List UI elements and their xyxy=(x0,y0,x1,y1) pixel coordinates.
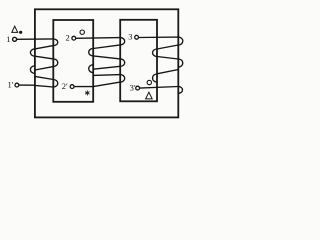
svg-text:1: 1 xyxy=(6,34,10,44)
marker circle at terminal 2 xyxy=(80,30,84,34)
marker circle at terminal 3' xyxy=(147,80,151,84)
winding L2 (coil on center core leg, terminals 2-2') xyxy=(89,38,125,87)
core outer rectangle xyxy=(35,9,178,117)
svg-text:3: 3 xyxy=(128,32,132,42)
winding L3 (coil on right core leg, terminals 3-3') xyxy=(153,37,183,82)
core window 1 xyxy=(53,20,93,102)
marker triangle at terminal 3' xyxy=(146,92,153,99)
marker asterisk at terminal 2' xyxy=(85,91,89,95)
svg-text:3′: 3′ xyxy=(130,82,136,92)
terminal 2 xyxy=(72,36,76,40)
terminal 1 xyxy=(13,37,17,41)
wire terminal 1' lead xyxy=(19,84,35,86)
svg-text:2′: 2′ xyxy=(62,81,68,91)
terminal 3 xyxy=(135,35,139,39)
wire terminal 3' lead xyxy=(140,87,179,89)
wire terminal 2 lead xyxy=(76,37,121,40)
terminal 2' xyxy=(70,85,74,89)
wire terminal 1 lead xyxy=(17,38,54,40)
svg-text:1′: 1′ xyxy=(8,80,14,90)
terminal 3' xyxy=(136,86,140,90)
winding L1 (coil on left core leg, terminals 1-1') xyxy=(30,39,57,87)
wire terminal 2' lead xyxy=(74,86,93,88)
marker triangle at terminal 1 xyxy=(12,26,18,32)
svg-text:2: 2 xyxy=(66,33,70,43)
winding L3 last turn xyxy=(178,87,182,94)
wire terminal 3 lead xyxy=(139,36,179,38)
terminal 1' xyxy=(15,83,19,87)
core window 2 xyxy=(120,20,157,102)
marker dot at terminal 1 xyxy=(19,31,22,34)
